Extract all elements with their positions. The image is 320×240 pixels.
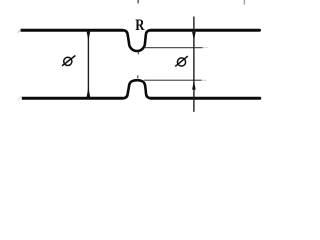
wire: faint tail of top extension line <box>203 47 209 49</box>
node: right dimension upper arrowhead below top outline <box>192 32 196 41</box>
node: left diameter symbol (phi, rotated) <box>62 56 75 66</box>
node: centre tick below top groove bottom <box>137 52 139 55</box>
wire: bottom extension line (groove bottom diameter) <box>144 79 201 81</box>
node: left dimension lower arrowhead <box>87 87 91 97</box>
wire: cropped faint tick top right <box>243 0 245 5</box>
wire: left dimension line (outer diameter) <box>87 32 89 97</box>
svg-text:R: R <box>135 16 145 34</box>
wire: bottom outline left segment of shaft <box>22 97 123 100</box>
node: right diameter symbol (phi, rotated) <box>175 56 188 66</box>
wire: right dimension line (groove diameter) <box>193 17 195 112</box>
wire: top outline left segment of shaft <box>21 29 124 32</box>
wire: bottom outline right segment of shaft <box>151 97 260 100</box>
wire: top extension line (groove bottom diameter) <box>145 47 203 49</box>
wire: faint start tick of bottom outline <box>18 96 22 100</box>
node: centre tick above bottom groove apex <box>137 75 139 78</box>
wire: faint start tick of top outline <box>17 29 21 33</box>
node: left dimension upper arrowhead <box>87 32 91 41</box>
node: right dimension lower arrowhead below bottom extension line <box>192 81 196 90</box>
wire: faint tail of bottom extension line <box>202 79 207 81</box>
wire: cropped leader tick above R <box>137 0 139 3</box>
node: bottom groove notch (U rising from bottom edge) <box>123 80 151 98</box>
node: top groove notch (U cut into top edge, fillets R) <box>123 30 150 51</box>
wire: top outline right segment of shaft <box>151 29 260 32</box>
